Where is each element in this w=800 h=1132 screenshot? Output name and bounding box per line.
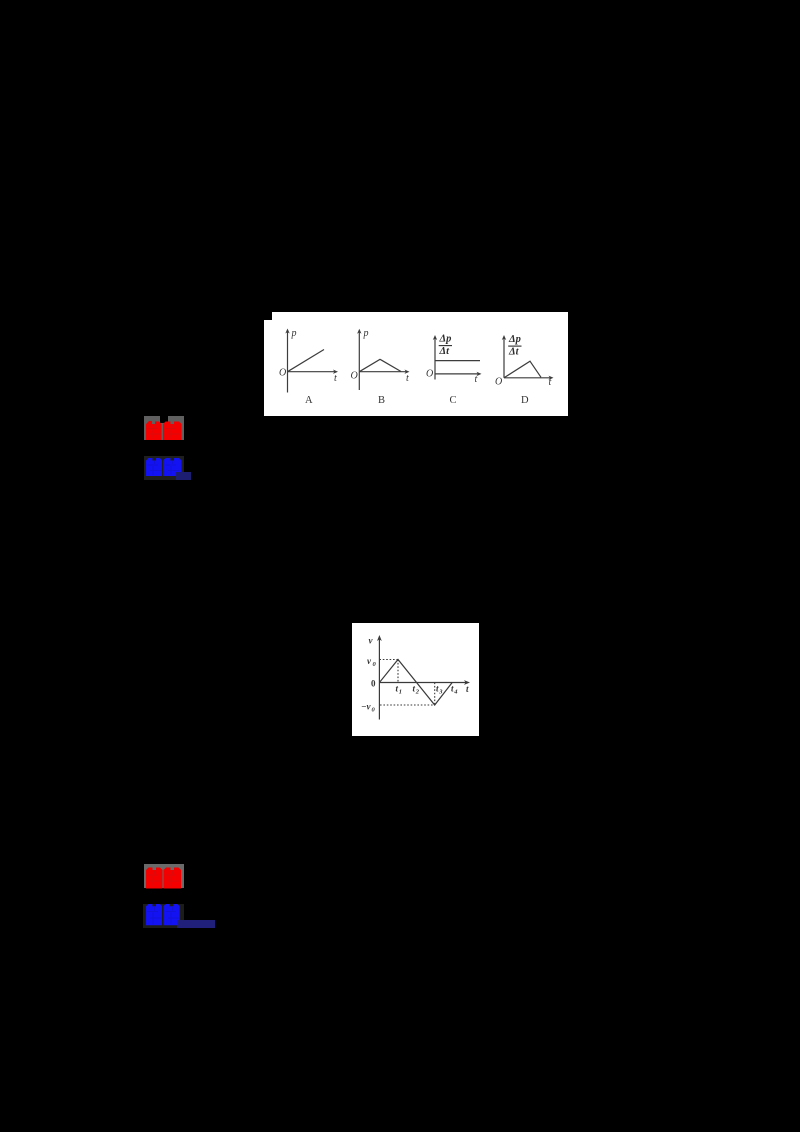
svg-text:C: C	[450, 395, 457, 406]
svg-text:1: 1	[399, 689, 402, 696]
svg-text:O: O	[426, 369, 433, 380]
svg-text:t: t	[334, 373, 337, 384]
svg-text:p: p	[291, 328, 297, 339]
svg-text:O: O	[495, 377, 502, 388]
svg-text:3: 3	[438, 689, 443, 696]
svg-text:2: 2	[415, 689, 420, 696]
svg-text:A: A	[305, 395, 313, 406]
svg-text:O: O	[279, 368, 286, 379]
svg-text:Δt: Δt	[439, 346, 451, 357]
svg-text:4: 4	[453, 689, 458, 696]
svg-text:D: D	[521, 395, 529, 406]
svg-text:B: B	[378, 395, 385, 406]
svg-text:O: O	[351, 371, 358, 382]
svg-text:t: t	[549, 377, 552, 388]
svg-text:t: t	[475, 374, 478, 385]
svg-text:Δp: Δp	[508, 334, 521, 345]
svg-text:−v: −v	[361, 702, 371, 712]
svg-text:t: t	[406, 373, 409, 384]
svg-text:p: p	[363, 328, 369, 339]
svg-text:Δp: Δp	[439, 333, 452, 344]
svg-text:Δt: Δt	[508, 347, 520, 358]
svg-text:0: 0	[371, 679, 376, 689]
